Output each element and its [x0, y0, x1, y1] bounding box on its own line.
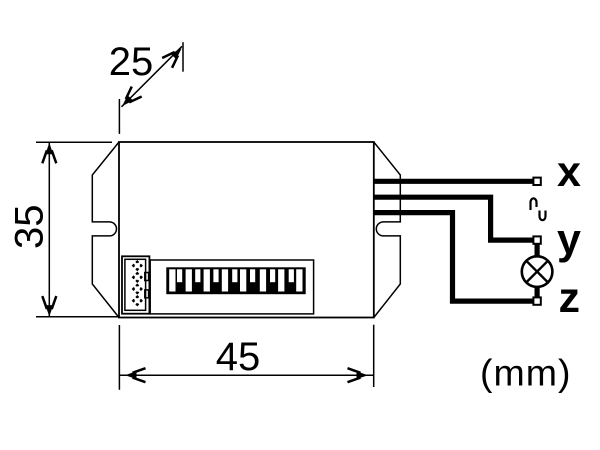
- svg-text:(mm): (mm): [480, 352, 571, 394]
- svg-text:y: y: [557, 216, 581, 264]
- svg-text:35: 35: [8, 205, 52, 250]
- svg-text:25: 25: [109, 40, 154, 84]
- svg-text:x: x: [557, 148, 581, 196]
- svg-text:45: 45: [216, 335, 261, 379]
- svg-text:z: z: [559, 274, 581, 322]
